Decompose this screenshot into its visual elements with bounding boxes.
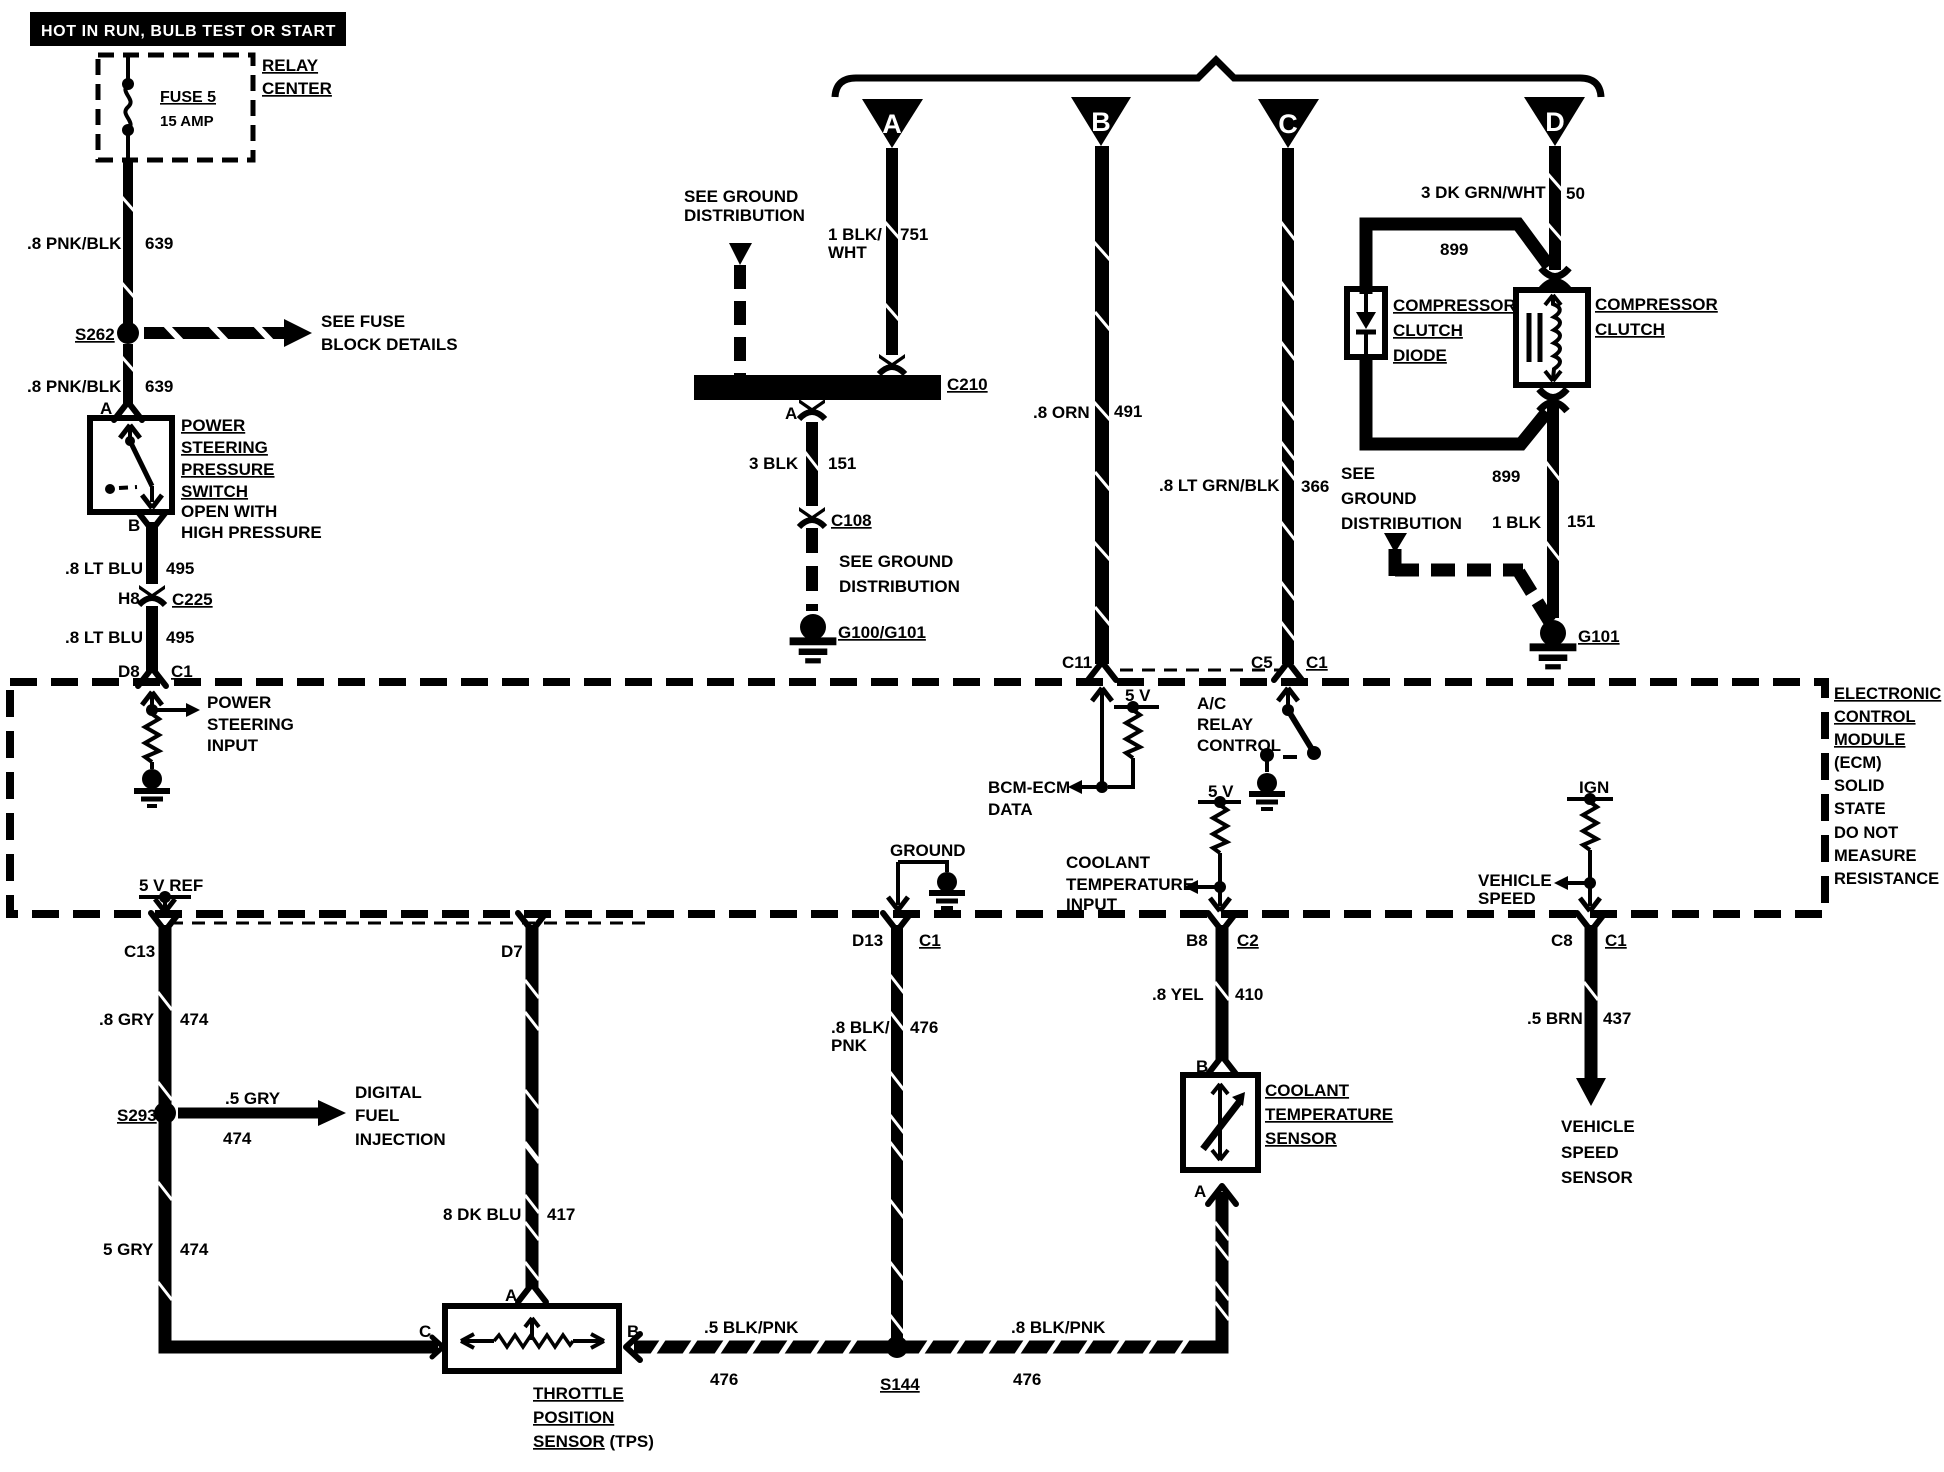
svg-text:SWITCH: SWITCH (181, 482, 248, 501)
svg-text:S262: S262 (75, 325, 115, 344)
svg-text:G100/G101: G100/G101 (838, 623, 926, 642)
svg-text:C5: C5 (1251, 653, 1273, 672)
svg-text:WHT: WHT (828, 243, 867, 262)
svg-text:.8 LT GRN/BLK: .8 LT GRN/BLK (1159, 476, 1280, 495)
svg-text:STATE: STATE (1834, 800, 1886, 818)
svg-text:SPEED: SPEED (1561, 1143, 1619, 1162)
svg-text:.8 LT BLU: .8 LT BLU (65, 628, 143, 647)
svg-text:INPUT: INPUT (1066, 895, 1118, 914)
svg-text:1 BLK: 1 BLK (1492, 513, 1542, 532)
svg-text:.5 BRN: .5 BRN (1527, 1009, 1583, 1028)
svg-text:CENTER: CENTER (262, 79, 332, 98)
svg-text:.8 PNK/BLK: .8 PNK/BLK (27, 234, 122, 253)
svg-text:474: 474 (180, 1240, 209, 1259)
svg-text:B: B (1091, 107, 1111, 137)
svg-text:C2: C2 (1237, 931, 1259, 950)
svg-text:RESISTANCE: RESISTANCE (1834, 870, 1939, 888)
svg-text:.8 LT BLU: .8 LT BLU (65, 559, 143, 578)
svg-text:.5 GRY: .5 GRY (225, 1089, 281, 1108)
svg-text:.8 BLK/PNK: .8 BLK/PNK (1011, 1318, 1106, 1337)
svg-text:COOLANT: COOLANT (1265, 1081, 1350, 1100)
svg-text:PRESSURE: PRESSURE (181, 460, 275, 479)
svg-text:3 BLK: 3 BLK (749, 454, 799, 473)
svg-text:5 V REF: 5 V REF (139, 876, 203, 895)
svg-text:1 BLK/: 1 BLK/ (828, 225, 882, 244)
svg-text:50: 50 (1566, 184, 1585, 203)
svg-text:STEERING: STEERING (207, 715, 294, 734)
svg-text:.8 PNK/BLK: .8 PNK/BLK (27, 377, 122, 396)
svg-text:899: 899 (1440, 240, 1468, 259)
svg-text:SEE GROUND: SEE GROUND (839, 552, 953, 571)
svg-text:DIODE: DIODE (1393, 346, 1447, 365)
svg-text:BCM-ECM: BCM-ECM (988, 778, 1070, 797)
svg-text:.8 BLK/: .8 BLK/ (831, 1018, 890, 1037)
svg-text:PNK: PNK (831, 1036, 868, 1055)
svg-text:A: A (882, 109, 902, 139)
svg-text:RELAY: RELAY (262, 56, 319, 75)
svg-text:POWER: POWER (207, 693, 271, 712)
svg-text:(ECM): (ECM) (1834, 754, 1882, 772)
svg-text:HOT IN RUN, BULB TEST OR START: HOT IN RUN, BULB TEST OR START (41, 23, 336, 40)
svg-text:FUEL: FUEL (355, 1106, 399, 1125)
svg-text:SEE GROUND: SEE GROUND (684, 187, 798, 206)
svg-text:751: 751 (900, 225, 928, 244)
svg-text:DIGITAL: DIGITAL (355, 1083, 422, 1102)
svg-text:476: 476 (710, 1370, 738, 1389)
svg-text:3 DK GRN/WHT: 3 DK GRN/WHT (1421, 183, 1546, 202)
svg-text:C11: C11 (1062, 653, 1092, 672)
svg-text:CONTROL: CONTROL (1834, 708, 1916, 726)
svg-text:DATA: DATA (988, 800, 1033, 819)
svg-text:.5 BLK/PNK: .5 BLK/PNK (704, 1318, 799, 1337)
svg-text:474: 474 (223, 1129, 252, 1148)
svg-text:DO NOT: DO NOT (1834, 824, 1898, 842)
svg-text:COOLANT: COOLANT (1066, 853, 1151, 872)
svg-text:INPUT: INPUT (207, 736, 259, 755)
svg-text:C13: C13 (124, 942, 155, 961)
svg-text:S293: S293 (117, 1106, 157, 1125)
svg-text:VEHICLE: VEHICLE (1561, 1117, 1635, 1136)
svg-text:C: C (1278, 109, 1298, 139)
svg-text:SPEED: SPEED (1478, 889, 1536, 908)
svg-text:MEASURE: MEASURE (1834, 847, 1917, 865)
svg-text:GROUND: GROUND (1341, 489, 1417, 508)
svg-text:C108: C108 (831, 511, 872, 530)
svg-text:TEMPERATURE: TEMPERATURE (1066, 875, 1194, 894)
svg-text:SENSOR: SENSOR (1561, 1168, 1633, 1187)
svg-text:8 DK BLU: 8 DK BLU (443, 1205, 521, 1224)
svg-text:5 GRY: 5 GRY (103, 1240, 154, 1259)
svg-text:C1: C1 (919, 931, 941, 950)
svg-text:A: A (1194, 1182, 1206, 1201)
svg-text:FUSE 5: FUSE 5 (160, 89, 216, 106)
svg-text:C1: C1 (1306, 653, 1328, 672)
svg-text:DISTRIBUTION: DISTRIBUTION (1341, 514, 1462, 533)
svg-text:SENSOR: SENSOR (1265, 1129, 1337, 1148)
svg-text:.8 YEL: .8 YEL (1152, 985, 1204, 1004)
svg-text:SENSOR (TPS): SENSOR (TPS) (533, 1432, 654, 1451)
svg-text:B: B (128, 516, 140, 535)
svg-text:639: 639 (145, 377, 173, 396)
svg-text:C: C (419, 1322, 431, 1341)
svg-text:C1: C1 (1605, 931, 1627, 950)
svg-text:366: 366 (1301, 477, 1329, 496)
svg-text:410: 410 (1235, 985, 1263, 1004)
svg-text:CLUTCH: CLUTCH (1393, 321, 1463, 340)
svg-text:D13: D13 (852, 931, 883, 950)
svg-text:D7: D7 (501, 942, 523, 961)
svg-text:639: 639 (145, 234, 173, 253)
svg-text:G101: G101 (1578, 627, 1620, 646)
svg-text:5 V: 5 V (1125, 686, 1151, 705)
svg-text:POSITION: POSITION (533, 1408, 614, 1427)
svg-text:D: D (1545, 107, 1565, 137)
svg-text:899: 899 (1492, 467, 1520, 486)
svg-text:C8: C8 (1551, 931, 1573, 950)
svg-text:ELECTRONIC: ELECTRONIC (1834, 685, 1941, 703)
svg-text:495: 495 (166, 559, 194, 578)
svg-text:DISTRIBUTION: DISTRIBUTION (684, 206, 805, 225)
svg-text:RELAY: RELAY (1197, 715, 1254, 734)
svg-text:SEE FUSE: SEE FUSE (321, 312, 405, 331)
svg-text:MODULE: MODULE (1834, 731, 1906, 749)
svg-text:A: A (785, 404, 797, 423)
svg-text:THROTTLE: THROTTLE (533, 1384, 624, 1403)
svg-text:H8: H8 (118, 589, 140, 608)
svg-text:IGN: IGN (1579, 778, 1609, 797)
svg-text:417: 417 (547, 1205, 575, 1224)
svg-text:BLOCK DETAILS: BLOCK DETAILS (321, 335, 458, 354)
svg-text:STEERING: STEERING (181, 438, 268, 457)
svg-text:474: 474 (180, 1010, 209, 1029)
svg-text:151: 151 (828, 454, 856, 473)
svg-text:HIGH PRESSURE: HIGH PRESSURE (181, 523, 322, 542)
svg-text:C210: C210 (947, 375, 988, 394)
svg-text:OPEN WITH: OPEN WITH (181, 502, 277, 521)
svg-text:C225: C225 (172, 590, 213, 609)
svg-text:S144: S144 (880, 1375, 920, 1394)
svg-text:437: 437 (1603, 1009, 1631, 1028)
svg-text:491: 491 (1114, 402, 1142, 421)
svg-text:476: 476 (1013, 1370, 1041, 1389)
svg-text:POWER: POWER (181, 416, 245, 435)
svg-text:INJECTION: INJECTION (355, 1130, 446, 1149)
svg-text:SOLID: SOLID (1834, 777, 1885, 795)
svg-text:VEHICLE: VEHICLE (1478, 871, 1552, 890)
svg-text:B8: B8 (1186, 931, 1208, 950)
svg-text:495: 495 (166, 628, 194, 647)
svg-text:15 AMP: 15 AMP (160, 113, 214, 130)
svg-text:DISTRIBUTION: DISTRIBUTION (839, 577, 960, 596)
svg-text:GROUND: GROUND (890, 841, 966, 860)
svg-text:TEMPERATURE: TEMPERATURE (1265, 1105, 1393, 1124)
svg-text:SEE: SEE (1341, 464, 1375, 483)
svg-text:476: 476 (910, 1018, 938, 1037)
svg-text:A/C: A/C (1197, 694, 1226, 713)
svg-text:CLUTCH: CLUTCH (1595, 320, 1665, 339)
svg-text:.8 GRY: .8 GRY (99, 1010, 155, 1029)
svg-text:COMPRESSOR: COMPRESSOR (1393, 296, 1516, 315)
svg-text:COMPRESSOR: COMPRESSOR (1595, 295, 1718, 314)
svg-text:.8 ORN: .8 ORN (1033, 403, 1090, 422)
svg-text:151: 151 (1567, 512, 1595, 531)
